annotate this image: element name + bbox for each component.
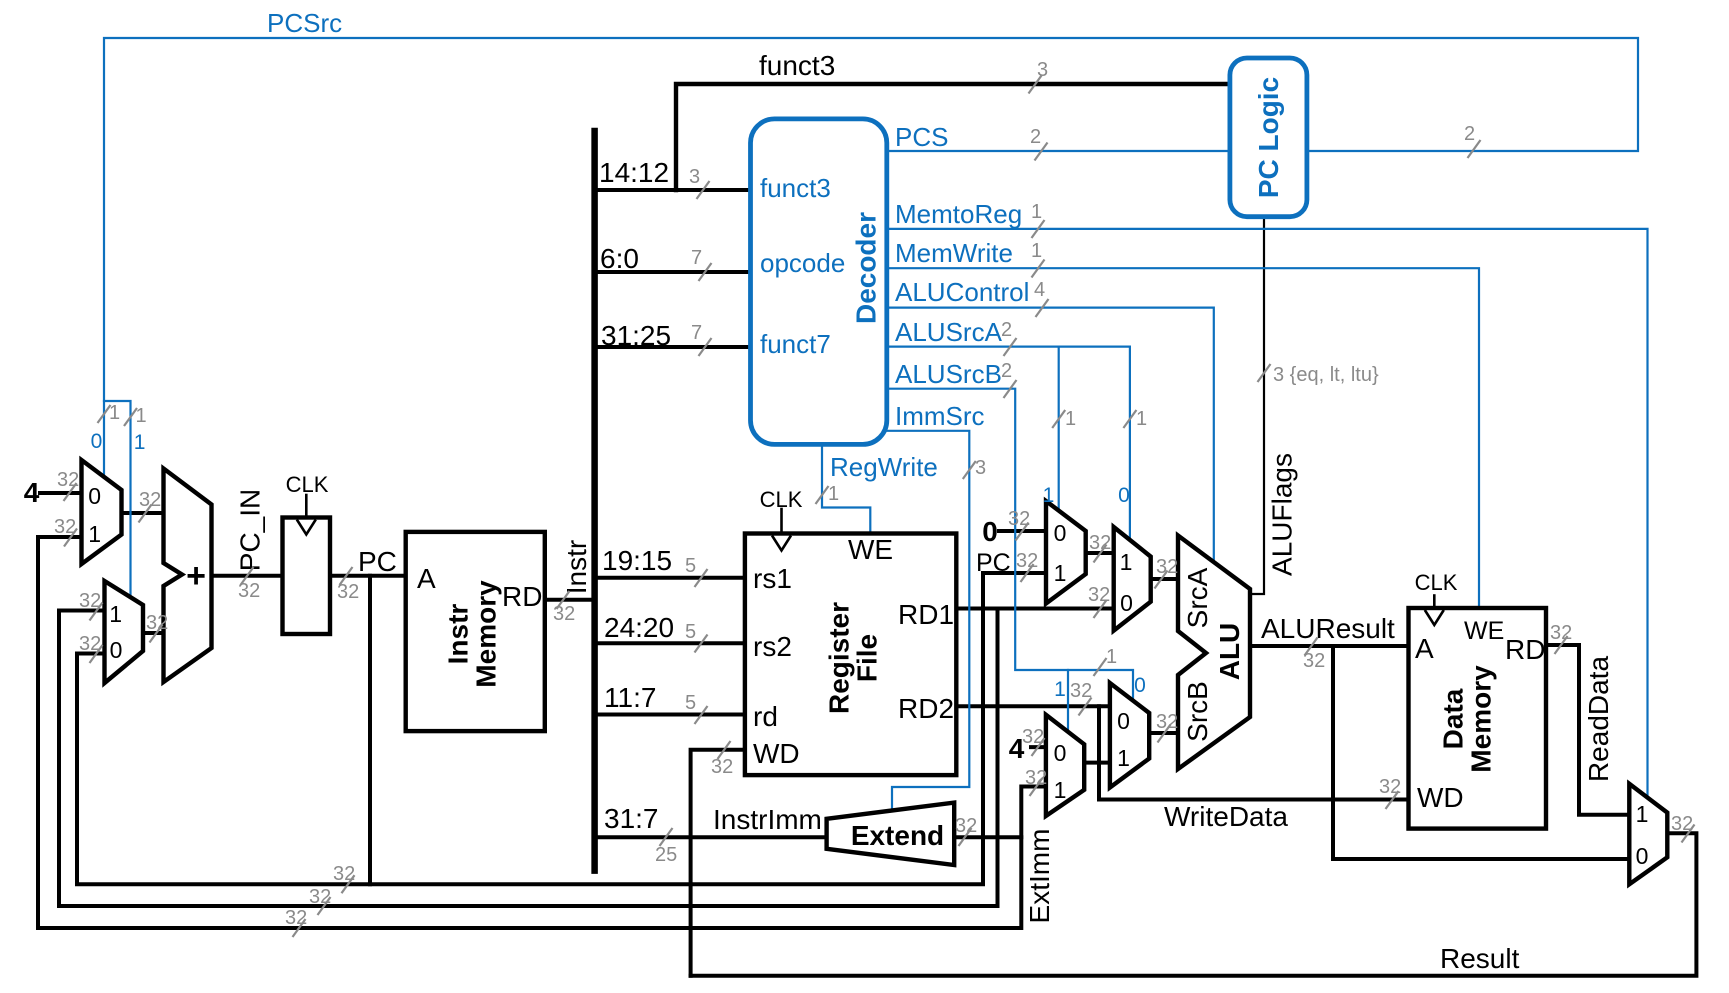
svg-text:32: 32 [79,590,101,612]
svg-text:CLK: CLK [760,487,803,512]
bus width 32 RD1 M4 [1094,600,1107,618]
bus width 32 M6 port1 [1030,778,1043,796]
svg-text:32: 32 [553,603,575,625]
mux M6 (4 / ExtImm) [1046,715,1084,816]
bus width 32 constant0 M3 [1016,523,1029,541]
wire ImmSrc [887,431,970,811]
svg-text:32: 32 [1671,813,1693,835]
bus width 5 rs2 [695,635,708,653]
svg-text:24:20: 24:20 [604,612,674,643]
wire ALUResult feedback to mux M7 [1333,646,1629,859]
bus width 32 M5 out [1158,725,1171,743]
ALU [1178,536,1250,770]
svg-text:Decoder: Decoder [851,212,882,324]
wire CLK stub PC [305,495,308,518]
wire Instr Memory RD to bus [545,598,595,602]
svg-text:32: 32 [54,516,76,538]
wire RD1 loop to mux M1 port1 [38,535,82,539]
register PC [283,518,331,635]
bus width 3 ImmSrc [963,461,976,479]
svg-text:32: 32 [1022,726,1044,748]
svg-text:4: 4 [24,477,40,508]
svg-text:MemWrite: MemWrite [895,238,1013,268]
svg-text:funct3: funct3 [760,173,831,203]
svg-text:0: 0 [110,637,123,663]
svg-text:PCS: PCS [895,122,948,152]
wire funct7 tap 31:25 [595,345,751,349]
wire ReadData [1546,645,1629,815]
svg-text:32: 32 [57,469,79,491]
svg-text:4: 4 [1034,279,1045,301]
svg-text:5: 5 [685,692,696,714]
svg-text:RD: RD [1505,634,1545,665]
svg-text:32: 32 [285,907,307,929]
wire constant 4 to mux M6 [1031,745,1046,749]
svg-text:1: 1 [1054,777,1067,803]
svg-text:ALUFlags: ALUFlags [1267,453,1298,576]
svg-text:1: 1 [1636,801,1649,827]
svg-text:WE: WE [1464,617,1504,645]
wire ALUSrcA [887,346,1130,348]
bus width 32 loop C [293,919,306,937]
svg-text:5: 5 [685,555,696,577]
svg-text:1: 1 [1136,408,1147,430]
wire ExtImm Extend out [954,835,1021,839]
svg-text:32: 32 [1070,680,1092,702]
svg-text:0: 0 [1117,708,1130,734]
svg-text:32: 32 [146,612,168,634]
svg-text:0: 0 [1636,843,1649,869]
bus width 3 funct3 tap [697,181,710,199]
Instr Memory [406,532,545,731]
svg-text:SrcA: SrcA [1182,567,1213,628]
wire RegWrite [822,444,870,533]
svg-text:0: 0 [91,430,103,453]
svg-text:Register: Register [824,602,855,714]
wire PC to Instr Memory A [330,574,406,578]
svg-text:32: 32 [238,580,260,602]
svg-text:11:7: 11:7 [604,682,656,713]
svg-text:Extend: Extend [851,820,944,851]
svg-text:RegWrite: RegWrite [830,452,938,482]
bus width 32 WriteData [1386,791,1399,809]
svg-text:PC_IN: PC_IN [235,489,266,571]
wire mux M2 out to adder [143,631,164,635]
svg-text:1: 1 [136,405,147,427]
svg-text:1: 1 [1031,201,1042,223]
svg-text:Instr: Instr [443,604,474,665]
wire InstrImm tap 31:7 [595,835,827,839]
bus width 1 PCSrc bit0 [98,405,111,423]
bus width 32 RD2 [1079,698,1092,716]
wire mux M6 out to mux M5 [1084,761,1110,765]
bus width 32 M1 out [139,505,152,523]
wire constant 4 to mux M1 [40,491,82,495]
wire MemtoReg [887,229,1648,798]
mux M7 (ReadData / ALUResult) [1629,784,1667,885]
bus width 1 ALUSrcA bit1 [1123,410,1136,428]
svg-text:32: 32 [309,886,331,908]
svg-text:ALUSrcA: ALUSrcA [895,317,1003,347]
wire ALUSrcA bit to mux M4 [1129,347,1131,540]
bus width 2 ALUSrcA [1004,338,1017,356]
clock input Data Memory [1425,610,1444,625]
svg-text:1: 1 [109,601,122,627]
svg-text:2: 2 [1001,360,1012,382]
svg-text:ALUSrcB: ALUSrcB [895,359,1002,389]
bus width 32 M7 out [1682,825,1695,843]
svg-text:PCSrc: PCSrc [267,8,342,38]
svg-text:1: 1 [828,483,839,505]
bus width 3 ALUFlags [1258,364,1271,382]
svg-text:2: 2 [1030,126,1041,148]
wire rs1 tap 19:15 [595,576,745,580]
svg-text:5: 5 [685,621,696,643]
mux M2 (RD1 / PC) [105,581,144,683]
bus width 32 Instr [557,591,570,609]
wire funct3 tap 14:12 [595,188,751,192]
svg-text:31:7: 31:7 [604,803,659,834]
svg-text:6:0: 6:0 [600,243,639,274]
svg-text:PC: PC [976,549,1011,577]
svg-text:32: 32 [1089,532,1111,554]
svg-text:ALUControl: ALUControl [895,277,1029,307]
wire ALUSrcB bit to mux M6 [1067,670,1069,732]
bus width 32 DM RD [1555,636,1568,654]
svg-text:SrcB: SrcB [1182,681,1213,742]
bus width 1 PCSrc bit1 [124,408,137,426]
mux M5 (RD2 / M6) [1110,683,1149,788]
svg-text:0: 0 [88,483,101,509]
svg-text:32: 32 [1156,711,1178,733]
bus width 25 InstrImm [660,828,673,846]
svg-text:0: 0 [1134,674,1146,697]
svg-text:1: 1 [1054,678,1066,701]
svg-text:WD: WD [1417,782,1464,813]
svg-text:RD2: RD2 [898,693,954,724]
Data Memory [1409,608,1547,829]
wire funct3 to PC Logic [676,84,1230,190]
mux M4 (M3 / RD1) [1114,527,1151,631]
svg-text:32: 32 [337,581,359,603]
PC Logic [1230,58,1307,217]
svg-text:ALUResult: ALUResult [1261,613,1395,644]
svg-text:32: 32 [1016,550,1038,572]
svg-text:A: A [417,563,436,594]
wire mux M3 out to mux M4 [1086,551,1114,555]
adder [164,469,212,683]
bus width 1 RegWrite [816,486,829,504]
wire ALUSrcB [887,389,1133,701]
svg-text:WE: WE [848,534,893,565]
wire PC_IN adder to PC register [212,574,283,578]
wire WriteData [1099,706,1409,799]
wire PC feedback drop [368,576,372,884]
bus width 32 constant4 M1 [64,483,77,501]
svg-text:rs2: rs2 [753,631,792,662]
svg-text:Memory: Memory [471,580,502,688]
wire ALUSrcA bit to mux M3 [1058,347,1060,511]
wire mux M1 out to adder [122,511,164,515]
wire mux M2 port1 stub [59,609,105,613]
wire PCS [887,150,1230,152]
svg-text:funct7: funct7 [760,329,831,359]
bus width 32 loop B [318,897,331,915]
svg-text:Instr: Instr [561,540,592,594]
svg-text:1: 1 [109,402,120,424]
bus width 32 M1 port1 [64,529,77,547]
svg-text:Memory: Memory [1466,665,1497,773]
svg-text:1: 1 [1065,408,1076,430]
svg-text:1: 1 [1120,549,1133,575]
svg-text:32: 32 [1008,508,1030,530]
bus width 5 rd [695,706,708,724]
bus width 32 ALUResult [1305,638,1318,656]
svg-text:31:25: 31:25 [601,320,671,351]
svg-text:1: 1 [134,431,146,454]
svg-text:File: File [852,634,883,682]
svg-text:32: 32 [711,756,733,778]
bus width 32 M2 port1 [90,603,103,621]
svg-text:0: 0 [1054,520,1067,546]
svg-text:1: 1 [88,521,101,547]
wire rs2 tap 24:20 [595,641,745,645]
svg-text:Data: Data [1438,688,1469,749]
svg-text:1: 1 [1117,745,1130,771]
svg-text:32: 32 [1088,584,1110,606]
wire Result [691,833,1697,976]
svg-text:3: 3 [1037,59,1048,81]
svg-text:ImmSrc: ImmSrc [895,401,985,431]
svg-text:rd: rd [753,701,778,732]
wire PCSrc [104,38,1638,477]
svg-text:WriteData: WriteData [1164,801,1288,832]
svg-text:1: 1 [1043,484,1055,507]
bus width 5 rs1 [695,569,708,587]
svg-text:RD1: RD1 [898,599,954,630]
wire loop A (PC) [77,573,1046,884]
wire mux M4 out to ALU SrcA [1151,577,1178,581]
svg-text:7: 7 [691,247,702,269]
bus width 3 funct3 top [1029,76,1042,94]
bus width 32 M6 port0 [1032,738,1045,756]
bus width 1 MemWrite [1032,260,1045,278]
wire mux M5 out to ALU SrcB [1149,731,1178,735]
wire Register File WD [691,750,745,976]
svg-text:CLK: CLK [286,472,329,497]
svg-text:rs1: rs1 [753,563,792,594]
wire RD2 [956,704,1110,708]
svg-text:+: + [186,557,206,595]
clock input Register File [772,536,791,551]
svg-text:3: 3 [689,166,700,188]
svg-text:WD: WD [753,738,800,769]
bus width 32 loop A [342,875,355,893]
svg-text:1: 1 [1106,646,1117,668]
Decoder [751,119,887,445]
svg-text:25: 25 [655,844,677,866]
bus width 32 M4 out [1155,571,1168,589]
wire opcode tap 6:0 [595,270,751,274]
svg-text:0: 0 [982,516,998,547]
bus width 32 PC SrcA [1021,564,1034,582]
svg-text:32: 32 [1379,776,1401,798]
svg-text:0: 0 [1054,740,1067,766]
mux M3 (0 / PC) [1046,501,1086,604]
wire PCSrc bit1 branch [104,401,131,597]
wire constant 0 to mux M3 [999,529,1046,533]
svg-text:3: 3 [975,457,986,479]
svg-text:Result: Result [1440,943,1520,974]
svg-text:32: 32 [79,633,101,655]
svg-text:32: 32 [333,863,355,885]
bus width 2 PCSrc [1468,140,1481,158]
bus width 32 PC_IN [241,567,254,585]
svg-text:14:12: 14:12 [599,157,669,188]
svg-text:0: 0 [1118,484,1130,507]
svg-text:opcode: opcode [760,248,845,278]
wire mux M2 port0 stub [77,652,105,656]
wire loop B (RD1 to M2) [59,609,998,907]
Extend unit [827,803,955,865]
svg-text:32: 32 [1156,556,1178,578]
svg-text:0: 0 [1120,590,1133,616]
bus width 2 ALUSrcB [1004,380,1017,398]
bus width 1 ALUSrcB bit [1094,658,1107,676]
svg-text:funct3: funct3 [759,50,835,81]
svg-text:A: A [1415,633,1434,664]
wire CLK stub Data Memory [1433,596,1436,609]
svg-text:RD: RD [502,581,542,612]
svg-text:32: 32 [139,489,161,511]
wire ALUFlags [1250,217,1264,594]
bus width 4 ALUControl [1036,299,1049,317]
svg-text:PC: PC [358,546,397,577]
wire MemWrite [887,268,1479,608]
svg-text:MemtoReg: MemtoReg [895,199,1022,229]
svg-text:32: 32 [1550,622,1572,644]
svg-text:2: 2 [1001,319,1012,341]
wire CLK stub Register File [780,509,783,534]
svg-text:1: 1 [1031,240,1042,262]
bus width 32 M3 out [1094,545,1107,563]
svg-text:7: 7 [691,322,702,344]
svg-text:2: 2 [1464,123,1475,145]
bus width 1 MemtoReg [1032,220,1045,238]
svg-text:1: 1 [1054,560,1067,586]
svg-text:PC Logic: PC Logic [1253,77,1284,198]
svg-text:32: 32 [955,815,977,837]
svg-text:CLK: CLK [1415,570,1458,595]
svg-text:32: 32 [1025,767,1047,789]
svg-text:32: 32 [1303,650,1325,672]
bus width 32 WD RF [718,741,731,759]
bus width 7 funct7 tap [699,338,712,356]
Register File [745,534,956,776]
wire Instr bus (vertical) [591,131,598,871]
bus width 7 opcode tap [699,263,712,281]
mux M1 (4 / RD1) [82,460,122,564]
bus width 32 PC [340,567,353,585]
svg-text:19:15: 19:15 [602,545,672,576]
wire rd tap 11:7 [595,713,745,717]
bus width 32 ExtImm [959,828,972,846]
svg-text:ExtImm: ExtImm [1024,829,1055,924]
bus width 32 M2 out [150,625,163,643]
bus width 2 PCS [1035,143,1048,161]
wire ALUResult [1250,644,1409,648]
clock input PC register [297,520,316,535]
wire RD1 [956,607,1113,611]
wire ALUControl [887,308,1214,563]
svg-text:3 {eq, lt, ltu}: 3 {eq, lt, ltu} [1273,364,1379,386]
svg-text:ReadData: ReadData [1583,656,1614,783]
svg-text:InstrImm: InstrImm [713,804,822,835]
bus width 32 M2 port0 [90,645,103,663]
bus width 1 ALUSrcA bit0 [1052,410,1065,428]
svg-text:ALU: ALU [1214,623,1245,681]
wire loop C (ExtImm to M1) [38,537,1046,928]
